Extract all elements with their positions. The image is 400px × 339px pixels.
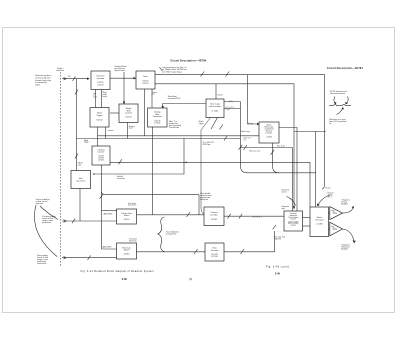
op-amp vertical output amplifier	[330, 207, 343, 220]
svg-text:40 1 to 3, 4: 40 1 to 3, 4	[253, 216, 262, 219]
wire x240 vertical down and arc into y173 bus	[241, 102, 248, 173]
wire display skip bottom vertical to column wire	[152, 127, 154, 215]
wire row decoder out, up into char generators bottom	[224, 231, 274, 252]
svg-text:4 ChannelSwitch No: 4 ChannelSwitch No	[129, 238, 137, 242]
wire break slash on input	[73, 76, 76, 81]
block Drive Logic and Decoders	[206, 99, 224, 118]
svg-text:uABCDEFG: uABCDEFG	[103, 212, 113, 215]
wire timer bottom vertical	[144, 89, 146, 136]
wire Read-in Mode arrow down to Display Line Latches	[123, 72, 125, 104]
block Channel Counter	[92, 146, 110, 165]
wire right jog bus	[294, 131, 326, 133]
op-amp horizontal output amplifier	[330, 222, 343, 236]
wire drop to raster generator top	[315, 132, 317, 208]
svg-text:(b): (b)	[189, 278, 192, 281]
wire plug-in interface dashed boundary	[60, 72, 62, 267]
block Column Data Switch U2190	[117, 209, 137, 224]
wire bus1 horizontal (y136)	[98, 135, 260, 137]
wire input CH signal into Function Decoder	[62, 78, 89, 80]
waveform arrow from below	[337, 108, 343, 115]
brace two multiplexed analog levels	[158, 217, 165, 252]
wire char generators to raster generator (two)	[303, 217, 311, 219]
wire row data switch to row decoder	[137, 251, 206, 253]
svg-text:Reset: Reset	[218, 94, 223, 97]
svg-text:Circuit Description—4E784: Circuit Description—4E784	[170, 58, 207, 62]
block Word Trigger U2232	[90, 108, 109, 128]
wire channel inhibit curved arrow	[318, 195, 331, 206]
waveform squiggle baseline right figure	[329, 104, 351, 105]
svg-text:Read-in Modefrom DeluxeSignal: Read-in Modefrom DeluxeSignal Inputs	[115, 66, 127, 72]
block Single-Shot Lockout U2126	[119, 104, 138, 123]
svg-text:(0-9): (0-9)	[229, 101, 233, 103]
block Row Decoder U2183	[205, 243, 224, 261]
wire reset drop to Drive Logic	[215, 84, 217, 99]
wire x199 vertical joining column wire	[198, 195, 200, 215]
svg-text:Oneofword: Oneofword	[93, 93, 97, 99]
wire column decoder to character generators	[224, 215, 284, 217]
node bus1 start: word trigger bottom vertical	[97, 127, 99, 146]
svg-text:3-40: 3-40	[275, 273, 281, 276]
wire word-don't-recorded into Display Skip top	[163, 104, 206, 109]
svg-text:3-38: 3-38	[122, 278, 128, 281]
wire word logic bottom vertical arc into y173 bus	[273, 143, 280, 173]
svg-text:uABCDEFG: uABCDEFG	[102, 245, 112, 248]
wire y147.5 link	[241, 147, 293, 149]
wire channel counter output bus (y162)	[110, 162, 310, 207]
wire drive logic outputs right to x240 vertical	[224, 101, 241, 103]
wire right diagram boundary	[324, 75, 326, 186]
waveform arc arrow 1	[334, 97, 336, 104]
svg-text:Circuit Description—4E784: Circuit Description—4E784	[327, 66, 364, 70]
svg-text:Fig. 3-41 Detailed block diag: Fig. 3-41 Detailed block diagram of Read…	[81, 270, 155, 273]
svg-text:Preset: Preset	[325, 186, 331, 189]
wire control patterns tick	[160, 67, 163, 71]
svg-text:4 Channeldata switch: 4 Channeldata switch	[128, 203, 137, 207]
svg-text:Lockout: Lockout	[108, 129, 114, 132]
svg-text:Fig. 3-40 (cont): Fig. 3-40 (cont)	[266, 265, 289, 268]
wire bus2 horizontal (y138.5)	[77, 138, 241, 140]
wire y173 bus to raster generator	[247, 172, 316, 174]
wire row analog input	[62, 257, 117, 259]
wire keys-encoded arc to column input	[40, 206, 58, 220]
wire channel counter branch right (40ms line)	[102, 192, 200, 195]
wire word trigger second bottom vertical	[105, 127, 107, 139]
wire bus top2 from Timer right to char generators	[155, 84, 294, 209]
block Raster Generator	[310, 207, 329, 237]
wire ready drop from bus1 into Word Logic	[248, 75, 260, 124]
svg-text:Ready: Ready	[248, 123, 253, 125]
block Word Logic and Priority Feature Encoder	[259, 122, 279, 143]
wire jitter bottom down to column input wire	[79, 189, 81, 222]
wire vertical from input down to Jitter Correction	[76, 79, 78, 171]
block Row Data Switch U2180	[117, 243, 137, 259]
wire word logic right to char generators	[279, 128, 297, 212]
wire keys-encoded long arc to row input	[34, 205, 57, 257]
wire column data switch to column decoder	[137, 214, 205, 216]
wire Function Decoder to Word Trigger (two verticals)	[95, 90, 97, 108]
wire jitter feed from bus2 via x184	[93, 139, 184, 175]
wire column analog input	[62, 220, 117, 222]
wire 4channel-switch arc to char generators	[287, 197, 296, 206]
svg-text:M-0, 0-0, 0-0: M-0, 0-0, 0-0	[250, 151, 260, 153]
block Display Skip Generator	[148, 108, 168, 127]
wire drive logic bottom diagonals	[201, 118, 211, 215]
svg-text:ColumnDecoderU2185: ColumnDecoderU2185	[210, 212, 218, 221]
wire channel counter down to data switches	[102, 165, 117, 249]
wire Function Decoder to Timer	[110, 77, 136, 79]
wire timer to display skip generator	[151, 89, 153, 108]
wire display line latches bottom vertical	[127, 123, 129, 139]
wire preset tick	[322, 187, 325, 190]
block Column Decoder U2185	[204, 207, 224, 226]
wire raster generator outputs to amplifiers	[329, 212, 330, 214]
block Character Generators	[284, 211, 303, 231]
svg-text:M-1, 0-10: M-1, 0-10	[277, 145, 285, 147]
wire vertical amp output arc	[343, 208, 354, 213]
waveform arc arrow 2	[346, 97, 348, 104]
block Timer U2126B	[136, 71, 155, 89]
wire horizontal amp output arc	[343, 229, 355, 242]
block Jitter Correction	[71, 171, 91, 189]
wire bus top1 from Timer right to right boundary	[155, 74, 325, 76]
wire Function Decoder to Display Line Latches	[110, 112, 119, 114]
svg-text:Word Logic: Word Logic	[241, 131, 250, 133]
block Function Decoder U2126	[91, 71, 110, 90]
